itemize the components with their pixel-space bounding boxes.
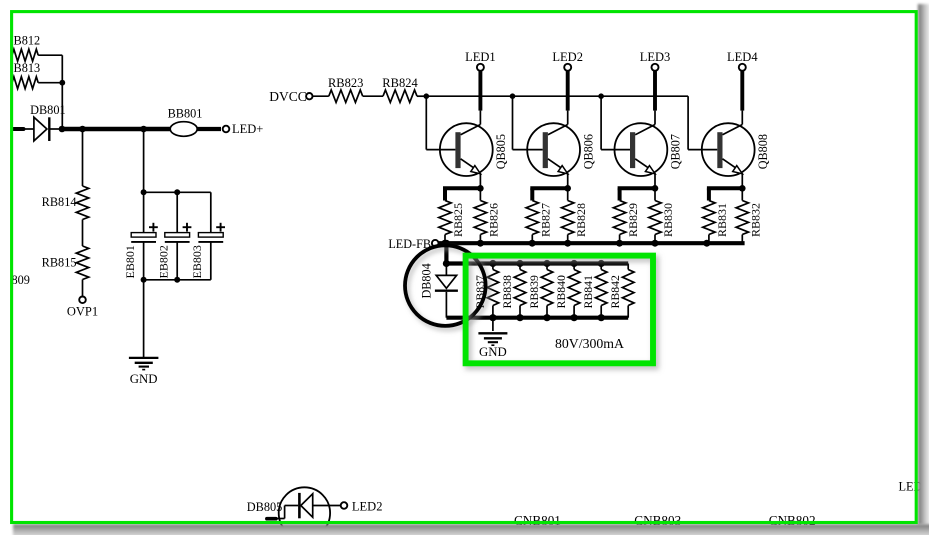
svg-text:RB824: RB824 bbox=[382, 76, 418, 90]
wire collector QB805 bbox=[461, 111, 481, 135]
svg-text:LED2: LED2 bbox=[352, 500, 383, 514]
wire main to diode bbox=[24, 128, 34, 130]
transistor QB806 bbox=[527, 123, 595, 176]
node bank bottom junction RB840 bbox=[571, 314, 578, 321]
text CNB802 bbox=[769, 513, 816, 528]
capacitor EB802 bbox=[157, 192, 192, 279]
svg-text:QB807: QB807 bbox=[669, 134, 683, 169]
svg-text:DVCC: DVCC bbox=[269, 89, 307, 104]
wire main to cap bus bbox=[143, 129, 145, 192]
node bank top corner bbox=[443, 260, 450, 267]
wire RB815 to OVP1 bbox=[82, 280, 84, 297]
svg-text:RB826: RB826 bbox=[487, 203, 501, 237]
wire RB828 bottom bbox=[567, 235, 569, 244]
wire main left stub bbox=[14, 127, 24, 131]
capacitor EB803 bbox=[190, 192, 225, 279]
resistor RB831 bbox=[703, 201, 729, 238]
wire cap top bus bbox=[144, 191, 211, 193]
svg-text:RB830: RB830 bbox=[661, 203, 675, 237]
svg-text:OVP1: OVP1 bbox=[67, 305, 98, 319]
node emitter junction QB808 bbox=[739, 185, 746, 192]
wire bank to ground bbox=[492, 318, 494, 331]
wire RB837 bottom bbox=[492, 306, 494, 318]
node bank bottom junction RB838 bbox=[516, 314, 523, 321]
resistor RB841 bbox=[581, 264, 607, 309]
node main junction 3 (cap branch) bbox=[140, 126, 147, 133]
node bank top junction RB839 bbox=[543, 260, 550, 267]
wire collector QB808 bbox=[723, 111, 743, 135]
node emitter junction QB807 bbox=[652, 185, 659, 192]
resistor RB838 bbox=[500, 264, 526, 309]
terminal LED2 (bottom) bbox=[341, 500, 383, 514]
svg-text:RB840: RB840 bbox=[554, 275, 568, 309]
node bank top junction RB841 bbox=[598, 260, 605, 267]
diode DB804 bbox=[420, 263, 458, 317]
svg-text:LED+: LED+ bbox=[232, 122, 263, 136]
node bank bottom junction RB837 bbox=[489, 314, 496, 321]
svg-text:LED4: LED4 bbox=[727, 50, 758, 64]
svg-text:RB815: RB815 bbox=[42, 255, 77, 269]
resistor RB823 bbox=[328, 76, 363, 103]
text 809 (clipped label) bbox=[12, 273, 30, 287]
wire B813 to branch bbox=[38, 82, 62, 84]
wire main bus thick bbox=[62, 127, 170, 132]
wire B812 to branch bbox=[38, 54, 62, 56]
wire RB829 bottom bbox=[619, 235, 621, 244]
wire cap bottom bus bbox=[144, 279, 211, 281]
svg-text:RB831: RB831 bbox=[715, 203, 729, 237]
resistor RB829 bbox=[613, 201, 639, 238]
svg-text:RB842: RB842 bbox=[608, 275, 622, 309]
wire emitter bar stage 1 bbox=[443, 188, 480, 200]
transistor QB805 bbox=[440, 123, 508, 176]
wire LED-FB to bank bbox=[444, 243, 448, 263]
svg-text:LED1: LED1 bbox=[465, 50, 496, 64]
wire branch vertical bbox=[61, 55, 63, 129]
wire emitter QB806 bbox=[567, 173, 569, 188]
wire RB841 bottom bbox=[600, 306, 602, 318]
resistor RB814 bbox=[42, 186, 89, 220]
node emitter junction QB805 bbox=[477, 185, 484, 192]
svg-text:809: 809 bbox=[12, 273, 30, 287]
wire emitter QB805 bbox=[479, 173, 481, 188]
wire RB838 bottom bbox=[519, 306, 521, 318]
wire emitter QB807 bbox=[654, 173, 656, 188]
resistor RB830 bbox=[649, 188, 675, 237]
wire emitter bar stage 2 bbox=[530, 188, 567, 200]
svg-text:B812: B812 bbox=[14, 34, 41, 48]
wire RB840 bottom bbox=[573, 306, 575, 318]
wire base drop QB807 bbox=[601, 96, 630, 149]
svg-text:DB804: DB804 bbox=[420, 263, 434, 298]
svg-text:RB814: RB814 bbox=[42, 195, 77, 209]
wire RB842 bottom bbox=[627, 306, 629, 318]
text 80V/300mA bbox=[555, 336, 624, 351]
svg-text:B813: B813 bbox=[14, 61, 41, 75]
svg-text:GND: GND bbox=[130, 372, 158, 386]
resistor RB842 bbox=[608, 264, 634, 309]
transistor QB807 bbox=[615, 123, 683, 176]
resistor RB837 bbox=[473, 264, 499, 309]
terminal DVCC bbox=[269, 89, 312, 104]
wire RB830 bottom bbox=[654, 235, 656, 244]
node bank top junction RB837 bbox=[489, 260, 496, 267]
resistor RB839 bbox=[527, 264, 553, 309]
annotation circle DB804 bbox=[405, 245, 486, 326]
svg-text:RB832: RB832 bbox=[749, 203, 763, 237]
wire RB831 bottom bbox=[708, 235, 710, 244]
resistor RB828 bbox=[562, 188, 588, 237]
wire to RB814 bbox=[82, 129, 84, 186]
terminal LED2 bbox=[552, 50, 583, 71]
node junction B-branch bbox=[59, 80, 65, 86]
diode DB801 bbox=[30, 103, 66, 141]
svg-text:DB801: DB801 bbox=[30, 103, 66, 117]
svg-text:RB838: RB838 bbox=[500, 275, 514, 309]
wire base drop QB806 bbox=[513, 96, 543, 149]
node bank bottom junction RB839 bbox=[543, 314, 550, 321]
svg-text:QB806: QB806 bbox=[581, 134, 595, 169]
node base junction QB806 bbox=[510, 93, 516, 99]
annotation circle DB804 shadow bbox=[408, 248, 489, 329]
text LED (clipped right) bbox=[899, 479, 923, 493]
resistor RB825 bbox=[439, 201, 465, 238]
svg-text:RB829: RB829 bbox=[626, 203, 640, 237]
svg-text:EB803: EB803 bbox=[190, 245, 204, 278]
svg-text:DB805: DB805 bbox=[247, 500, 283, 514]
terminal LED+ bbox=[223, 122, 264, 136]
svg-text:EB801: EB801 bbox=[123, 245, 137, 278]
wire LED stub thick LED3 bbox=[653, 71, 657, 110]
wire RB823 to RB824 bbox=[363, 95, 383, 97]
wire RB825 bottom bbox=[444, 235, 446, 244]
svg-text:GND: GND bbox=[479, 345, 507, 359]
terminal OVP1 bbox=[67, 297, 98, 319]
wire RB839 bottom bbox=[546, 306, 548, 318]
wire LED stub thick LED1 bbox=[478, 71, 482, 110]
svg-text:RB839: RB839 bbox=[527, 275, 541, 309]
node base junction QB805 bbox=[424, 93, 430, 99]
node bank top junction RB838 bbox=[516, 260, 523, 267]
terminal LED3 bbox=[640, 50, 671, 71]
wire bead to LED+ bbox=[197, 127, 221, 131]
diode DB805 bbox=[247, 487, 341, 535]
wire diode to node bbox=[50, 128, 61, 130]
wire cap bus to ground bbox=[143, 280, 145, 357]
wire top bus bbox=[426, 95, 688, 97]
node emitter junction QB806 bbox=[564, 185, 571, 192]
wire base drop QB808 bbox=[688, 96, 717, 149]
capacitor EB801 bbox=[123, 192, 158, 279]
wire LED stub thick LED4 bbox=[740, 71, 744, 110]
wire LED stub thick LED2 bbox=[566, 71, 570, 110]
svg-text:RB823: RB823 bbox=[328, 76, 363, 90]
wire emitter bar stage 4 bbox=[707, 188, 742, 200]
terminal LED4 bbox=[727, 50, 758, 71]
svg-text:RB841: RB841 bbox=[581, 275, 595, 309]
resistor RB826 bbox=[474, 188, 500, 237]
transistor QB808 bbox=[702, 123, 770, 176]
svg-text:LED3: LED3 bbox=[640, 50, 671, 64]
node bus-resistor junction 25 bbox=[441, 240, 448, 247]
resistor RB815 bbox=[42, 246, 89, 280]
node base junction QB807 bbox=[598, 93, 604, 99]
svg-text:RB828: RB828 bbox=[574, 203, 588, 237]
resistor RB824 bbox=[382, 76, 418, 103]
node bus-resistor junction 29 bbox=[616, 240, 623, 247]
svg-text:LED-FB: LED-FB bbox=[388, 237, 431, 251]
svg-text:LED2: LED2 bbox=[552, 50, 583, 64]
svg-text:QB805: QB805 bbox=[494, 134, 508, 169]
node cap top 1 bbox=[141, 189, 147, 195]
wire RB826 bottom bbox=[479, 235, 481, 244]
svg-text:RB827: RB827 bbox=[539, 203, 553, 237]
resistor B812 bbox=[12, 34, 40, 62]
annotation box shadow bbox=[468, 259, 655, 367]
node bus-resistor junction 27 bbox=[529, 240, 536, 247]
ground GND (bank) bbox=[478, 333, 507, 359]
wire collector QB806 bbox=[548, 111, 568, 135]
wire DVCC to RB823 bbox=[313, 95, 329, 97]
node LED-FB corner junction bbox=[443, 240, 450, 247]
node bus-resistor junction 28 bbox=[564, 240, 571, 247]
svg-text:BB801: BB801 bbox=[168, 107, 203, 121]
node bus-resistor junction 26 bbox=[477, 240, 484, 247]
resistor RB840 bbox=[554, 264, 580, 309]
wire emitter bar stage 3 bbox=[618, 188, 655, 200]
wire RB832 bottom bbox=[741, 235, 743, 244]
wire RB824 to bus bbox=[417, 95, 426, 97]
node bus-resistor junction 30 bbox=[652, 240, 659, 247]
node bus-resistor junction 31 bbox=[703, 240, 710, 247]
text CNB803 bbox=[634, 513, 681, 528]
wire bank top bus bbox=[446, 261, 628, 265]
resistor RB827 bbox=[526, 201, 552, 238]
wire RB814 to RB815 bbox=[82, 220, 84, 247]
svg-text:80V/300mA: 80V/300mA bbox=[555, 336, 624, 351]
resistor B813 bbox=[12, 61, 40, 89]
wire bank bottom bus bbox=[446, 316, 628, 320]
svg-text:QB808: QB808 bbox=[756, 134, 770, 169]
wire collector QB807 bbox=[635, 111, 655, 135]
annotation box (green) bbox=[466, 256, 653, 364]
node bank bottom junction RB841 bbox=[598, 314, 605, 321]
shadow right edge bbox=[918, 4, 929, 525]
terminal LED1 bbox=[465, 50, 496, 71]
node bank top junction RB840 bbox=[571, 260, 578, 267]
wire emitter QB808 bbox=[741, 173, 743, 188]
wire base drop QB805 bbox=[426, 96, 455, 149]
node cap bottom 2 bbox=[174, 277, 180, 283]
text CNB801 bbox=[514, 513, 561, 528]
ground GND (left) bbox=[129, 358, 159, 386]
resistor RB832 bbox=[736, 188, 762, 237]
node main junction 1 bbox=[59, 126, 66, 133]
node main junction 2 (RB814 branch) bbox=[79, 126, 86, 133]
wire LED-FB bus bbox=[439, 241, 745, 245]
shadow bottom edge bbox=[13, 524, 929, 535]
terminal LED-FB bbox=[388, 237, 438, 251]
svg-text:EB802: EB802 bbox=[157, 245, 171, 278]
node cap bottom 1 bbox=[141, 277, 147, 283]
ferrite bead BB801 bbox=[168, 107, 203, 137]
wire RB827 bottom bbox=[531, 235, 533, 244]
svg-text:RB825: RB825 bbox=[451, 203, 465, 237]
node cap top 2 bbox=[174, 189, 180, 195]
